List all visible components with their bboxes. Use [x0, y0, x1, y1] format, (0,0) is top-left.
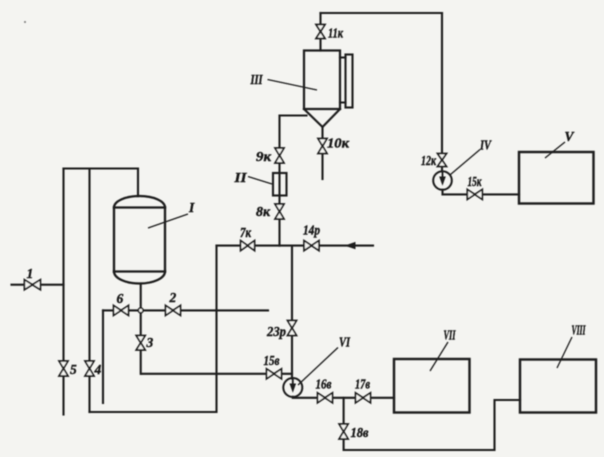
svg-text:IV: IV — [479, 138, 492, 153]
svg-text:15в: 15в — [264, 353, 280, 368]
svg-text:3: 3 — [146, 335, 154, 350]
svg-text:4: 4 — [94, 362, 102, 377]
svg-text:8к: 8к — [256, 204, 271, 219]
svg-text:18в: 18в — [351, 425, 369, 440]
svg-text:10к: 10к — [327, 136, 350, 151]
svg-text:2: 2 — [169, 290, 177, 305]
svg-text:1: 1 — [27, 266, 34, 281]
svg-text:VII: VII — [444, 328, 456, 343]
svg-text:VIII: VIII — [572, 323, 586, 338]
svg-text:V: V — [565, 129, 575, 144]
svg-text:7к: 7к — [240, 225, 252, 240]
svg-text:17в: 17в — [355, 377, 370, 392]
svg-text:II: II — [233, 170, 247, 185]
svg-text:5: 5 — [70, 362, 77, 377]
svg-text:14р: 14р — [303, 223, 320, 238]
svg-text:III: III — [250, 72, 263, 87]
svg-text:12к: 12к — [421, 153, 437, 168]
svg-text:I: I — [188, 200, 195, 215]
svg-text:15к: 15к — [468, 174, 483, 189]
svg-text:6: 6 — [117, 291, 124, 306]
svg-text:VI: VI — [339, 335, 351, 350]
svg-text:9к: 9к — [256, 149, 272, 164]
svg-text:23р: 23р — [266, 324, 286, 339]
svg-text:11к: 11к — [328, 26, 344, 41]
svg-text:16в: 16в — [316, 377, 332, 392]
